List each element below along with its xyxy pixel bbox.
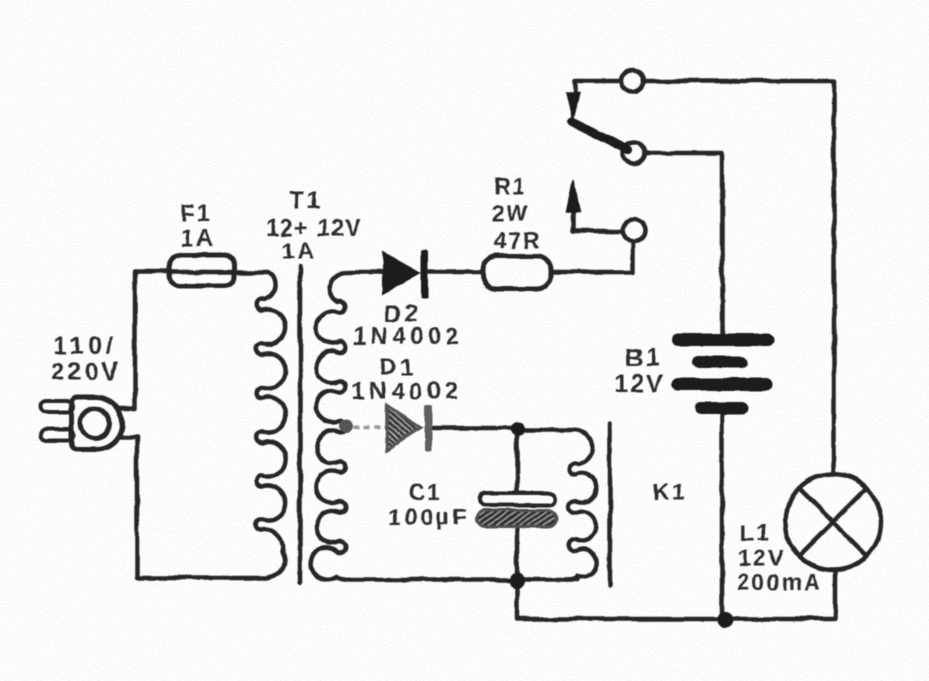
svg-text:B1: B1 <box>625 344 661 372</box>
svg-text:100µF: 100µF <box>389 504 470 530</box>
svg-text:2W: 2W <box>492 200 531 226</box>
svg-text:12V: 12V <box>739 545 786 571</box>
svg-text:C1: C1 <box>408 479 441 505</box>
svg-text:L1: L1 <box>740 520 771 546</box>
svg-text:47R: 47R <box>493 227 541 253</box>
svg-text:T1: T1 <box>289 187 323 214</box>
svg-text:200mA: 200mA <box>737 569 822 595</box>
svg-text:220V: 220V <box>51 358 121 386</box>
svg-text:1N4002: 1N4002 <box>352 323 463 350</box>
svg-text:F1: F1 <box>180 200 212 227</box>
svg-text:12V: 12V <box>615 370 665 398</box>
svg-text:R1: R1 <box>493 173 526 199</box>
svg-text:110/: 110/ <box>53 332 116 360</box>
svg-text:K1: K1 <box>652 479 687 505</box>
svg-text:D1: D1 <box>380 354 417 381</box>
svg-text:1A: 1A <box>181 225 216 252</box>
svg-text:1N4002: 1N4002 <box>351 378 462 405</box>
svg-text:1A: 1A <box>282 238 317 265</box>
